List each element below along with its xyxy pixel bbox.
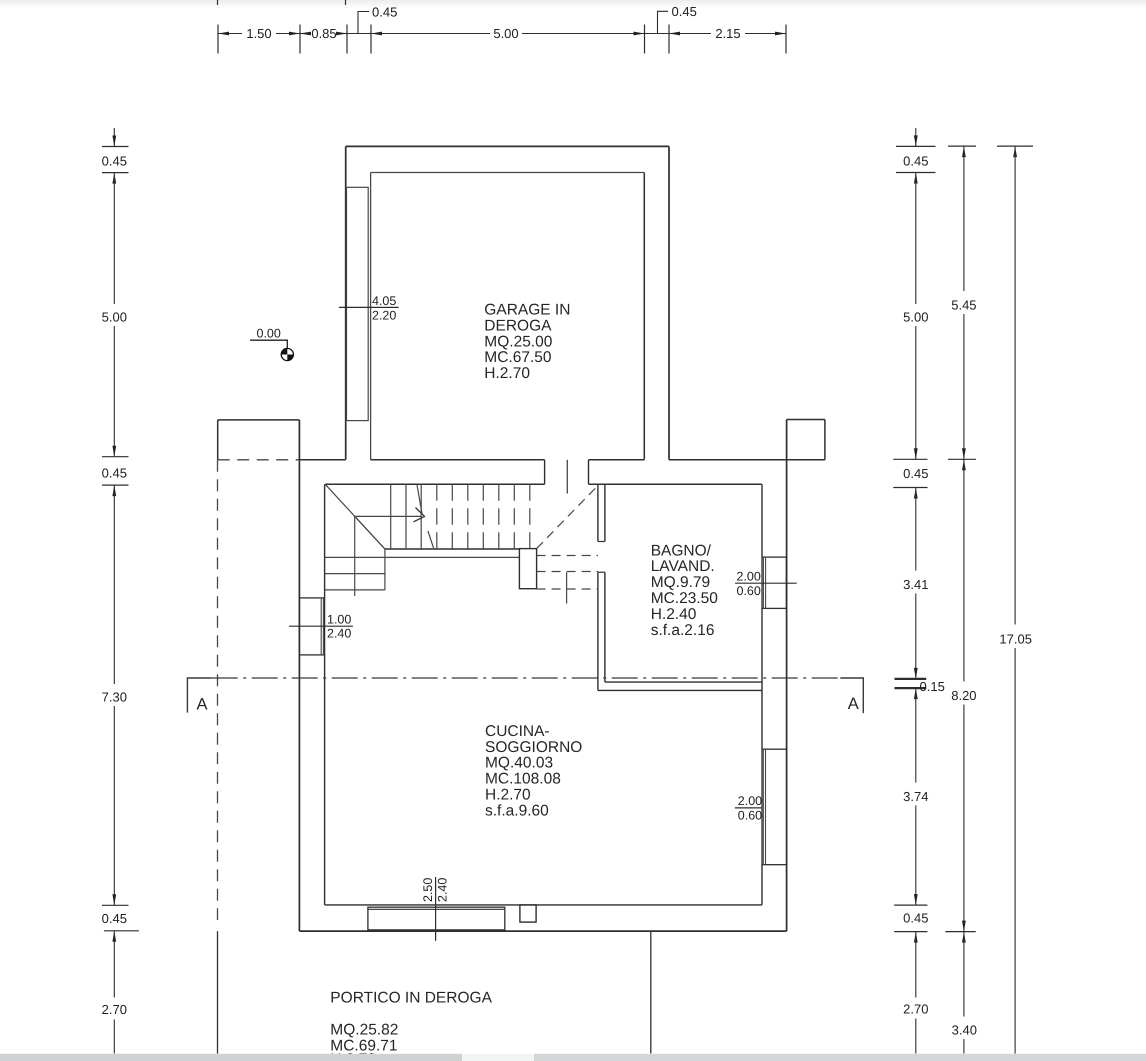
right dim1 tick y=459.3 [893, 458, 927, 460]
stairs dashed tread 10 [529, 484, 531, 549]
wall band top mid segment (garage floor) [371, 459, 545, 461]
svg-text:MQ.25.00: MQ.25.00 [484, 333, 552, 350]
svg-text:MQ.25.82: MQ.25.82 [330, 1021, 398, 1038]
stairs bottom edge [385, 548, 520, 550]
svg-text:3.41: 3.41 [903, 577, 928, 592]
svg-text:1.50: 1.50 [246, 26, 271, 41]
right dim1 3.41 line lower [915, 594, 917, 679]
svg-text:2.20: 2.20 [372, 309, 396, 323]
wall house south outer [299, 930, 786, 932]
svg-text:LAVAND.: LAVAND. [651, 558, 715, 575]
wall band bottom left segment [325, 483, 544, 485]
dimension 0.85 arrow right [336, 32, 347, 36]
right dim3 17.05 line lower [1014, 648, 1016, 1054]
stairs lower tread b [325, 589, 385, 591]
stairs dashed tread 8 [498, 484, 500, 549]
svg-text:2.70: 2.70 [102, 1002, 127, 1017]
left dim 7.30 line lower [113, 706, 115, 905]
right dim1 3.74 arrow up [914, 688, 918, 699]
right dim2 8.20 arrow down [962, 921, 966, 932]
south sill glass line [368, 908, 505, 910]
door frame line in garage-hall opening [566, 460, 568, 494]
dimension 0.45 leader left bracket [358, 12, 369, 34]
left dim 5.00 arrow down [112, 446, 116, 457]
dimension 5.00 arrow left [371, 32, 382, 36]
right dim1 tick y=905.1 [894, 904, 927, 906]
svg-text:2.15: 2.15 [715, 26, 740, 41]
dimension 2.15 arrow left [669, 32, 680, 36]
left dim tick y=456.7 [102, 456, 129, 458]
svg-text:4.05: 4.05 [372, 294, 396, 308]
svg-text:0.60: 0.60 [738, 808, 762, 822]
stairs dashed tread 7 [482, 484, 484, 549]
svg-text:8.20: 8.20 [951, 688, 976, 703]
left dim tick y=905.3 [102, 904, 129, 906]
right dim3 17.05 arrow up [1013, 146, 1017, 157]
dimension 0.85 line left part [300, 33, 309, 35]
stairs winder diagonal 1 [325, 484, 385, 549]
right dim1 3.74 line upper [915, 688, 917, 782]
right dim2 3.40 line lower [963, 1039, 965, 1054]
wall band bottom right segment (bagno top) [589, 483, 762, 485]
svg-text:0.15: 0.15 [920, 679, 945, 694]
svg-text:MQ.40.03: MQ.40.03 [485, 755, 553, 772]
dimension 2.15 line left part [669, 33, 711, 35]
stairs walk line horizontal [355, 515, 421, 517]
bottom band light segment [462, 1054, 534, 1061]
right dim1 thick tick y=688.1 (0.15) [895, 687, 927, 689]
stairs tread 1 [390, 484, 392, 549]
stairs small vertical mark [566, 572, 568, 603]
left dim tick y=146.5 [102, 146, 129, 148]
svg-text:5.45: 5.45 [951, 298, 976, 313]
svg-text:2.40: 2.40 [435, 878, 449, 902]
wall house inner right seg3 [761, 865, 763, 905]
garage door dim line [339, 306, 399, 308]
window left dim line [289, 625, 353, 627]
svg-text:5.00: 5.00 [102, 309, 127, 324]
level marker circle [281, 348, 293, 360]
wall bagno left inner upper [604, 484, 606, 541]
left dim column: arrow down to y=146.5 [112, 136, 116, 147]
stairs winder diagonal 2 [355, 516, 385, 549]
stairs dashed tread 6 [467, 484, 469, 549]
dimension chain top: extension tick x=669 [668, 25, 670, 54]
svg-text:PORTICO IN DEROGA: PORTICO IN DEROGA [330, 990, 492, 1007]
stairs dashed tread 5 [451, 484, 453, 549]
left dim 5.00 arrow up [112, 173, 116, 184]
right dim1 thick tick y=678.9 (0.15) [895, 678, 927, 680]
wall bagno bottom outer [598, 689, 762, 691]
left dim 5.00 line upper [113, 173, 115, 304]
right dim2 8.20 line lower [963, 705, 965, 932]
wall garage inner right [643, 173, 645, 460]
stairs dashed tread 4 [436, 484, 438, 549]
svg-text:MQ.9.79: MQ.9.79 [651, 574, 710, 591]
wall house outer left [298, 420, 300, 931]
cut extension mark top x=345.5 [345, 0, 347, 5]
left dim 2.70 arrow up [112, 931, 116, 942]
wall band top right segment [589, 459, 645, 461]
wall house inner left upper [324, 484, 326, 598]
bagno label block [651, 542, 719, 639]
right dim1 5.00 arrow up [914, 173, 918, 184]
dimension chain top: extension tick x=218 [217, 25, 219, 54]
left dim 2.70 line lower [113, 1020, 115, 1054]
stairs dashed tread 9 [513, 484, 515, 549]
svg-text:5.00: 5.00 [903, 309, 928, 324]
stairs dashed landing line 1 [537, 555, 598, 557]
stairs walk line arrow [414, 508, 425, 522]
svg-text:7.30: 7.30 [102, 690, 127, 705]
svg-text:A: A [848, 695, 859, 713]
window cucina glass line a [762, 749, 764, 865]
left dim 7.30 line upper [113, 485, 115, 684]
right dim2 3.40 arrow up [962, 932, 966, 943]
right dim1 2.70 line lower [915, 1019, 917, 1054]
dimension 5.00 line right part [522, 33, 645, 35]
left dim tick y=172.6 [102, 172, 129, 174]
right dim1 3.74 arrow down [914, 894, 918, 905]
wall band cap x=544.6 [544, 460, 546, 485]
window left wall glass line a [320, 598, 322, 655]
svg-text:H.2.70: H.2.70 [485, 787, 531, 804]
dimension 2.15 line right part [745, 33, 786, 35]
wall bagno left outer lower [597, 572, 599, 690]
stairs dashed landing line 3 [537, 588, 598, 590]
dimension chain top: extension tick x=300 [299, 25, 301, 54]
svg-text:2.40: 2.40 [327, 627, 351, 641]
garage label block [484, 302, 570, 383]
right dim2 5.45 arrow up [962, 146, 966, 157]
stairs newel post [519, 549, 536, 589]
portico dashed roof line left vertical [217, 460, 219, 920]
left dim 7.30 arrow up [112, 485, 116, 496]
section marker left bracket [187, 678, 211, 713]
wall bagno left cap y=572.2 [598, 571, 605, 573]
left dim 2.70 line upper [113, 931, 115, 998]
right dim1 tick y=146.4 [896, 145, 936, 147]
left dim tick y=485.1 [102, 484, 129, 486]
svg-text:0.45: 0.45 [102, 466, 127, 481]
wall bagno bottom inner [605, 681, 762, 683]
svg-text:MC.108.08: MC.108.08 [485, 771, 561, 788]
window left wall glass line b [322, 598, 324, 655]
wall garage outer left [345, 146, 347, 459]
wall band cap x=588.5 [588, 460, 590, 485]
right pillar bump right edge [824, 420, 826, 460]
right dim1 5.00 line upper [915, 173, 917, 305]
right dim2 8.20 line upper [963, 459, 965, 681]
wall band top far right segment [669, 459, 825, 461]
dimension 0.45 leader right bracket [658, 11, 669, 33]
wall house outer right [786, 420, 788, 932]
window cucina glass line b [765, 749, 767, 865]
window cucina box [762, 749, 787, 865]
wall house inner right seg2 [761, 608, 763, 749]
svg-text:H.2.40: H.2.40 [651, 606, 697, 623]
right dim1 tick y=931.6 [894, 931, 927, 933]
right dim2 8.20 arrow up [962, 459, 966, 470]
svg-text:DEROGA: DEROGA [484, 317, 552, 334]
wall house south inner [325, 904, 762, 906]
wall garage inner left [370, 173, 372, 460]
pillar square bottom [520, 905, 536, 922]
window bagno glass line b [765, 557, 767, 608]
svg-text:1.00: 1.00 [327, 613, 351, 627]
svg-text:0.60: 0.60 [737, 584, 761, 598]
wall garage outer right [668, 146, 670, 459]
svg-text:GARAGE IN: GARAGE IN [484, 302, 570, 319]
svg-text:BAGNO/: BAGNO/ [651, 542, 712, 559]
stairs dashed landing line 2 [537, 571, 598, 573]
right dim2 tick y=931.6 [945, 931, 975, 933]
svg-text:0.85: 0.85 [311, 26, 336, 41]
left pillar bump top [218, 419, 300, 421]
svg-text:0.45: 0.45 [903, 911, 928, 926]
stairs rail line [325, 556, 520, 558]
svg-text:2.00: 2.00 [737, 570, 761, 584]
right pillar bump top [787, 419, 825, 421]
cucina label block [485, 723, 582, 820]
window bagno box [762, 557, 786, 608]
right dim1: arrow down to y=146.4 [914, 135, 918, 146]
right dim1 2.70 arrow up [914, 932, 918, 943]
window bagno glass line a [762, 557, 764, 608]
dimension 0.45 right segment line [645, 33, 670, 35]
dimension 1.50 line left part [218, 33, 242, 35]
bottom band left [0, 1054, 462, 1061]
right dim1 tick y=172.5 [896, 172, 936, 174]
left dim column: stem above [113, 128, 115, 147]
door swing dashed diagonal [537, 487, 597, 549]
svg-text:0.45: 0.45 [903, 466, 928, 481]
wall garage inner top [371, 172, 645, 174]
right dim1 2.70 line upper [915, 932, 917, 998]
svg-text:0.45: 0.45 [672, 4, 697, 19]
south sill box [368, 907, 505, 930]
right dim1: stem above [915, 128, 917, 146]
dimension 1.50 arrow left [218, 32, 229, 36]
left dim tick y=930.8 [104, 930, 139, 932]
svg-text:3.74: 3.74 [903, 789, 928, 804]
svg-text:0.45: 0.45 [903, 154, 928, 169]
level marker line [250, 340, 287, 348]
section marker right bracket [840, 678, 863, 713]
right dim2 5.45 line upper [963, 146, 965, 291]
stairs break line upper [417, 484, 422, 513]
window bagno dim line [735, 582, 797, 584]
left dim 5.00 line lower [113, 326, 115, 457]
right dim1 3.41 arrow up [914, 488, 918, 499]
svg-text:s.f.a.2.16: s.f.a.2.16 [651, 622, 715, 639]
wall house inner right seg1 [761, 484, 763, 557]
svg-text:2.00: 2.00 [738, 794, 762, 808]
right dim1 3.41 line upper [915, 488, 917, 571]
wall band top left segment [299, 459, 345, 461]
stairs walk line vertical [354, 516, 356, 596]
svg-text:MC.67.50: MC.67.50 [484, 349, 552, 366]
dimension 5.00 line left part [371, 33, 490, 35]
svg-text:0.45: 0.45 [102, 154, 127, 169]
dimension chain top: extension tick x=786 [785, 25, 787, 54]
right dim2 tick y=459.3 [948, 458, 976, 460]
wall bagno left outer upper [597, 484, 599, 541]
right dim1 3.41 arrow down [914, 668, 918, 679]
stairs tread 3 [420, 484, 422, 549]
svg-text:A: A [197, 695, 208, 713]
portico left edge solid [217, 931, 219, 1053]
garage door panel [347, 187, 369, 420]
dimension chain top: extension tick x=644.5 [644, 25, 646, 54]
right dim2 5.45 line lower [963, 314, 965, 459]
right dim2 tick y=146.1 [948, 145, 976, 147]
svg-text:3.40: 3.40 [952, 1022, 977, 1037]
stairs break line lower [428, 531, 434, 548]
right dim2 5.45 arrow down [962, 448, 966, 459]
right dim1 5.00 arrow down [914, 448, 918, 459]
dimension chain top: extension tick x=371 [370, 25, 372, 54]
right dim1 5.00 line lower [915, 326, 917, 459]
right dim1 3.74 line lower [915, 806, 917, 906]
wall house inner left lower [324, 655, 326, 905]
svg-text:0.45: 0.45 [102, 911, 127, 926]
wall bagno left cap y=541.5 [598, 541, 605, 543]
svg-text:H.2.70: H.2.70 [484, 365, 530, 382]
dimension 2.15 arrow right [775, 32, 786, 36]
section line A-A dash-dot [212, 677, 841, 679]
right dim3 17.05 line upper [1014, 146, 1016, 624]
dimension 5.00 arrow right [634, 32, 645, 36]
svg-text:0.00: 0.00 [257, 327, 281, 341]
portico right edge solid [650, 931, 652, 1053]
stairs lower flight right edge [384, 549, 386, 590]
svg-text:CUCINA-: CUCINA- [485, 723, 550, 740]
stairs lower tread a [325, 573, 385, 575]
bottom band right [534, 1054, 1146, 1061]
wall garage outer top [346, 145, 669, 147]
right dim2 3.40 line upper [963, 932, 965, 1017]
cut extension mark top x=218 [217, 0, 219, 5]
left dim 7.30 arrow down [112, 894, 116, 905]
window cucina dim line [735, 807, 762, 809]
svg-text:MC.23.50: MC.23.50 [651, 590, 719, 607]
dimension 0.85 arrow left [300, 32, 311, 36]
dimension 0.45 segment line [347, 33, 371, 35]
dimension 1.50 arrow right [289, 32, 300, 36]
dimension chain top: extension tick x=347 [346, 25, 348, 54]
svg-text:s.f.a.9.60: s.f.a.9.60 [485, 802, 549, 819]
dimension 1.50 line right part [276, 33, 300, 35]
svg-text:0.45: 0.45 [372, 5, 397, 20]
right dim3 tick y=146.1 [997, 145, 1033, 147]
left pillar bump left edge [217, 420, 219, 460]
svg-text:5.00: 5.00 [493, 26, 518, 41]
south sill dim vertical line [435, 877, 437, 941]
right dim1 tick y=487.5 [893, 487, 927, 489]
svg-text:SOGGIORNO: SOGGIORNO [485, 739, 582, 756]
svg-text:2.70: 2.70 [903, 1002, 928, 1017]
svg-text:2.50: 2.50 [421, 878, 435, 902]
svg-text:17.05: 17.05 [999, 631, 1032, 646]
portico dashed roof line top horizontal [218, 459, 300, 461]
stairs tread 2 [405, 484, 407, 549]
wall bagno left inner lower [604, 572, 606, 682]
window left wall box [299, 598, 324, 655]
dimension 0.85 line right part [338, 33, 347, 35]
